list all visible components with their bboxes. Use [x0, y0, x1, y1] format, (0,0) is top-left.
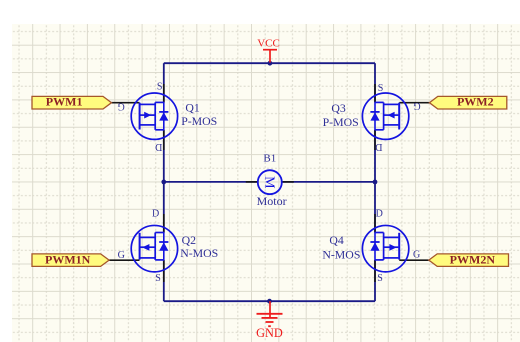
svg-text:PWM2: PWM2: [457, 95, 494, 109]
pin motor pin 2: [282, 181, 294, 183]
svg-text:D: D: [152, 209, 159, 220]
svg-text:D: D: [376, 209, 383, 220]
svg-text:P-MOS: P-MOS: [181, 114, 217, 128]
svg-text:N-MOS: N-MOS: [180, 246, 218, 260]
power port VCC: [257, 38, 280, 63]
port PWM1: [32, 95, 112, 109]
svg-text:GND: GND: [256, 326, 283, 340]
junction node motor left: [161, 180, 166, 185]
svg-text:P-MOS: P-MOS: [323, 115, 359, 129]
wire mid rail right: [282, 181, 375, 183]
pin Q4 source pin: [374, 260, 376, 282]
wire PWM2 gate lead: [399, 102, 429, 104]
pin motor pin 1: [246, 181, 258, 183]
svg-text:VCC: VCC: [257, 38, 280, 50]
svg-text:PWM1N: PWM1N: [45, 252, 91, 266]
pin Q1 source pin: [163, 84, 165, 102]
wire PWM2N gate lead: [399, 259, 429, 261]
port PWM1N: [32, 252, 109, 266]
motor B1: [258, 170, 282, 194]
svg-text:D: D: [375, 141, 382, 152]
svg-text:G: G: [118, 250, 125, 261]
transistor Q2 N-MOS: [131, 225, 177, 271]
transistor Q1 P-MOS: [131, 93, 177, 139]
svg-text:S: S: [157, 81, 163, 92]
svg-text:B1: B1: [263, 152, 276, 164]
junction node GND rail: [267, 299, 272, 304]
svg-text:Motor: Motor: [257, 194, 287, 208]
svg-text:S: S: [378, 83, 384, 94]
pin Q3 drain pin: [374, 130, 376, 150]
svg-text:G: G: [118, 100, 125, 111]
svg-text:PWM1: PWM1: [46, 95, 83, 109]
junction node motor right: [373, 180, 378, 185]
wire right middle vertical: [374, 130, 376, 233]
pin Q2 source pin: [163, 260, 165, 282]
power port GND: [256, 301, 283, 340]
svg-text:Q1: Q1: [185, 101, 200, 115]
port PWM2N: [429, 252, 509, 266]
wire right lower vertical: [374, 260, 376, 301]
wire left middle vertical: [163, 130, 165, 233]
pin Q4 drain pin: [374, 214, 376, 233]
wire left lower vertical: [163, 260, 165, 301]
svg-text:G: G: [413, 249, 420, 260]
wire left upper vertical: [163, 63, 165, 102]
port PWM2: [429, 95, 506, 109]
svg-text:D: D: [155, 141, 162, 152]
svg-text:N-MOS: N-MOS: [322, 248, 360, 262]
wire right upper vertical: [374, 63, 376, 102]
svg-text:S: S: [155, 273, 161, 284]
wire mid rail left: [164, 181, 258, 183]
svg-text:G: G: [413, 100, 420, 111]
transistor Q3 P-MOS (mirrored): [362, 93, 408, 139]
svg-text:M: M: [261, 176, 276, 189]
wire top rail VCC net: [164, 62, 375, 64]
svg-text:PWM2N: PWM2N: [450, 252, 496, 266]
svg-text:Q3: Q3: [331, 101, 346, 115]
transistor Q4 N-MOS (mirrored): [362, 225, 408, 271]
junction node VCC rail: [268, 61, 273, 66]
wire bottom rail GND net: [164, 300, 375, 302]
pin Q2 drain pin: [163, 214, 165, 233]
wire PWM1N gate lead: [109, 259, 139, 261]
svg-text:Q4: Q4: [329, 233, 344, 247]
pin Q3 source pin: [374, 84, 376, 102]
pin Q1 drain pin: [163, 130, 165, 150]
svg-text:S: S: [377, 273, 383, 284]
svg-text:Q2: Q2: [182, 233, 197, 247]
wire PWM1 gate lead: [112, 102, 140, 104]
